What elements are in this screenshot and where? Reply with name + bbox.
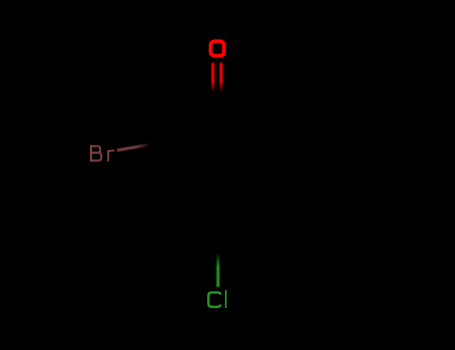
- bond C4-Cl (green half): [217, 253, 220, 287]
- ring bond C1-C2: [168, 113, 218, 142]
- atom label Br: [90, 145, 114, 161]
- bond C2-Br (maroon half): [117, 145, 150, 151]
- ring bond C6-C1: [218, 113, 268, 142]
- carbon half of C=O double bond: [213, 86, 221, 113]
- atom label O: [211, 41, 224, 56]
- atom label Cl: [208, 290, 225, 308]
- ring bond C2-C3: [167, 142, 170, 199]
- carbon half of C2-Br bond: [140, 142, 168, 147]
- double bond C1=O (red halves): [213, 63, 221, 93]
- carbon half of C4-Cl bond: [216, 228, 219, 256]
- ring bond C3-C4: [168, 199, 218, 228]
- ring bond C5-C6: [266, 142, 269, 199]
- ring bond C4-C5: [218, 199, 268, 228]
